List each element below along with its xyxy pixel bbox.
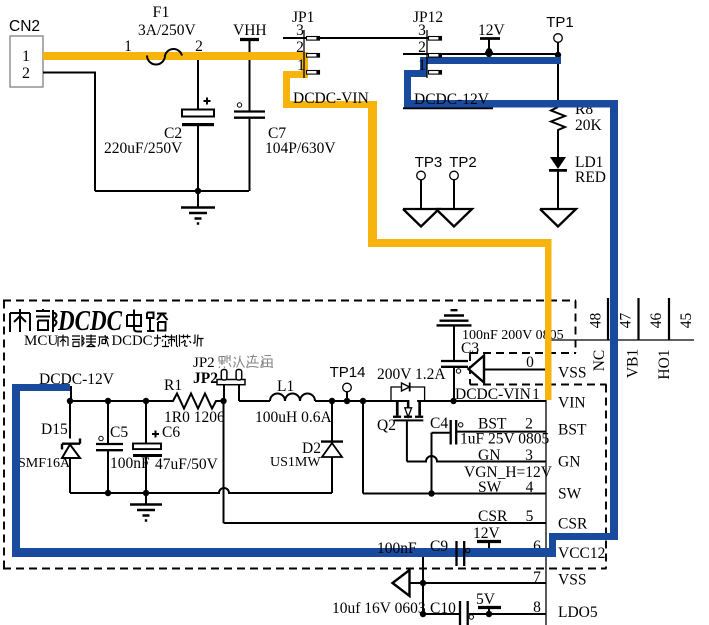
svg-text:47uF/50V: 47uF/50V xyxy=(155,456,219,473)
svg-text:VHH: VHH xyxy=(233,22,267,39)
node junction TP1/wire xyxy=(555,52,561,58)
pin stub JP1-1 xyxy=(307,71,320,75)
wire DCDC-12V highlight vertical under JP12 xyxy=(404,70,411,107)
svg-text:7: 7 xyxy=(533,569,541,586)
svg-text:CN2: CN2 xyxy=(9,18,40,35)
hanzi 芯 (small) xyxy=(181,335,192,347)
svg-text:GN: GN xyxy=(558,454,580,471)
svg-text:1: 1 xyxy=(124,38,132,55)
svg-text:1: 1 xyxy=(532,386,540,403)
resistor R8 xyxy=(551,101,603,157)
svg-text:3: 3 xyxy=(525,447,533,464)
node junction TP14 xyxy=(344,398,350,404)
wire ground rail with hop over CSR wire xyxy=(70,488,332,493)
node junction SW drop xyxy=(360,398,366,404)
ground inverted above C3 xyxy=(437,310,472,360)
node junction D2 top xyxy=(329,398,335,404)
wire SW drop vertical xyxy=(362,401,364,494)
svg-text:TP3: TP3 xyxy=(415,154,443,171)
svg-text:1: 1 xyxy=(297,57,305,74)
svg-text:DCDC-VIN: DCDC-VIN xyxy=(455,386,531,403)
svg-text:C5: C5 xyxy=(110,424,128,441)
svg-text:48: 48 xyxy=(588,313,605,329)
svg-text:DCDC: DCDC xyxy=(112,333,153,349)
svg-text:SW: SW xyxy=(558,486,582,503)
hanzi 默 (small gray) xyxy=(219,355,231,368)
wire SW node horizontal xyxy=(315,400,409,402)
wire DCDC-12V highlight step to VCC12 xyxy=(549,533,618,540)
wire pin0 VSS xyxy=(484,369,546,371)
svg-text:US1MW: US1MW xyxy=(270,455,321,470)
svg-text:TP14: TP14 xyxy=(330,364,366,381)
power symbol 12V bottom xyxy=(473,525,501,553)
svg-text:200V 1.2A: 200V 1.2A xyxy=(377,366,446,383)
wire DCDC-12V entry stub xyxy=(70,386,72,401)
IC top pin stubs 48 47 46 45 xyxy=(608,298,669,340)
svg-text:220uF/250V: 220uF/250V xyxy=(104,140,183,157)
diode D2 xyxy=(270,401,343,493)
svg-text:VSS: VSS xyxy=(558,365,586,382)
node junction C4/SW xyxy=(428,490,434,496)
svg-text:2: 2 xyxy=(418,39,426,56)
svg-text:12V: 12V xyxy=(478,22,506,39)
svg-text:4: 4 xyxy=(526,479,534,496)
wire JP1 pin3 to JP12 pin3 xyxy=(283,37,441,39)
transistor Q2 MOSFET xyxy=(377,366,446,434)
capacitor C5 xyxy=(96,401,150,493)
svg-text:CSR: CSR xyxy=(558,516,588,533)
IC left pin labels xyxy=(558,365,605,622)
wire DCDC-12V highlight bottom run xyxy=(12,548,552,557)
fuse F1 labels xyxy=(138,4,197,39)
diode D15 TVS xyxy=(18,401,80,493)
svg-text:VSS: VSS xyxy=(558,572,586,589)
node junction C6 bottom xyxy=(143,490,149,496)
ground under C2 xyxy=(181,191,215,224)
svg-text:VCC12: VCC12 xyxy=(558,545,605,562)
pin stub JP12-3 xyxy=(429,37,442,41)
svg-text:1uF 25V 0805: 1uF 25V 0805 xyxy=(460,430,550,447)
wire DCDC-VIN highlight under label xyxy=(283,101,373,108)
node junction D15 xyxy=(67,398,73,404)
wire DCDC-VIN highlight JP1 pin1 jog xyxy=(283,71,308,78)
svg-text:JP2: JP2 xyxy=(193,370,218,387)
wire pin7 VSS xyxy=(410,582,546,584)
ground triangle under LD1 xyxy=(540,209,576,227)
hanzi 认 (small gray) xyxy=(234,356,245,368)
svg-text:5V: 5V xyxy=(476,591,496,608)
svg-text:1: 1 xyxy=(418,57,426,74)
wire DCDC-VIN highlight mid vertical xyxy=(368,101,377,247)
wire DCDC-12V highlight JP12 drop xyxy=(420,57,427,77)
wire CSR sense vertical xyxy=(223,401,225,523)
wire DCDC-12V highlight entry to rail xyxy=(12,384,70,391)
ground under C6 xyxy=(130,493,162,521)
capacitor C7 xyxy=(234,103,336,191)
port arrow VSS bottom xyxy=(393,570,410,596)
svg-text:100nF: 100nF xyxy=(377,540,417,557)
dashed box internal DCDC outline xyxy=(3,301,607,569)
capacitor C2 xyxy=(104,58,214,191)
svg-text:NC: NC xyxy=(591,350,608,372)
node junction C5 bottom xyxy=(105,490,111,496)
hanzi 控 (small) xyxy=(154,335,169,347)
svg-text:47: 47 xyxy=(618,313,635,329)
test point TP14 xyxy=(330,364,366,401)
port arrow VSS net xyxy=(469,356,485,383)
svg-text:0: 0 xyxy=(526,354,534,371)
wire DCDC-12V highlight left vertical xyxy=(12,384,20,557)
wire DCDC-12V net stub under JP12 xyxy=(403,107,493,109)
svg-text:100uH 0.6A: 100uH 0.6A xyxy=(255,409,332,426)
capacitor C10 xyxy=(423,600,546,625)
node junction C5 top xyxy=(105,398,111,404)
svg-text:8: 8 xyxy=(533,599,541,616)
wire VIN rail right of Q2 xyxy=(417,400,546,402)
svg-text:SW: SW xyxy=(478,479,502,496)
svg-text:C10: C10 xyxy=(430,600,456,617)
node junction pin7 xyxy=(420,580,426,586)
IC chip body outline xyxy=(546,340,694,625)
wire DCDC-VIN highlight vertical under JP1 xyxy=(283,71,290,108)
power symbol 5V xyxy=(476,591,501,614)
svg-text:BST: BST xyxy=(558,422,587,439)
capacitor C9 plates over highlight xyxy=(377,538,470,566)
hanzi 制 (small) xyxy=(169,335,180,347)
svg-text:VB1: VB1 xyxy=(625,349,642,378)
svg-text:C6: C6 xyxy=(162,424,180,441)
svg-text:46: 46 xyxy=(648,313,665,329)
svg-text:R1: R1 xyxy=(164,377,182,394)
hanzi 内 (small) xyxy=(58,335,68,347)
svg-text:RED: RED xyxy=(575,169,606,186)
svg-text:GN: GN xyxy=(478,447,500,464)
svg-text:F1: F1 xyxy=(153,4,170,21)
capacitor C6 polarized xyxy=(133,401,219,493)
test point TP3 xyxy=(415,154,443,209)
test point TP2 xyxy=(449,154,477,209)
svg-text:104P/630V: 104P/630V xyxy=(265,140,336,157)
wire DCDC-VIN highlight JP1 pin2 drop xyxy=(301,52,308,78)
wire JP12 pin2 to TP1 xyxy=(403,53,558,55)
capacitor C4 xyxy=(430,415,463,494)
node junction JP2/R1/CSR xyxy=(220,398,226,404)
svg-text:C9: C9 xyxy=(430,538,448,555)
svg-text:20K: 20K xyxy=(575,117,603,134)
wire +12V rail xyxy=(70,400,169,402)
hanzi 路 xyxy=(147,313,168,332)
title 内部DCDC电路 (CJK drawn as strokes) xyxy=(10,309,168,332)
ground triangle under TP3 xyxy=(403,209,439,227)
wire DCDC-VIN highlight horizontal to IC xyxy=(368,239,551,247)
wire JP2 right post to L1 xyxy=(239,400,270,402)
svg-text:12V: 12V xyxy=(473,525,501,542)
wire DCDC-12V highlight JP12 pin2 to TP1 xyxy=(423,57,561,64)
svg-text:DCDC-VIN: DCDC-VIN xyxy=(293,90,369,107)
wire pin2 BST xyxy=(457,431,546,433)
hanzi 内 xyxy=(10,309,30,332)
connector JP12 xyxy=(413,9,443,78)
node junction C6 top xyxy=(143,398,149,404)
pin stub JP1-3 xyxy=(307,37,320,41)
wire Q2 gate drop xyxy=(406,421,408,461)
svg-text:3A/250V: 3A/250V xyxy=(138,22,197,39)
pin stub JP1-2 xyxy=(307,54,320,58)
wire pin3 GN with hop over C4 wire xyxy=(407,456,546,461)
wire ground bus under C2/C7 xyxy=(95,190,249,192)
svg-text:10uf 16V 0603: 10uf 16V 0603 xyxy=(332,600,426,617)
svg-text:C4: C4 xyxy=(430,415,448,432)
svg-text:VIN: VIN xyxy=(558,395,586,412)
ground triangle under TP2 xyxy=(436,209,472,227)
wire SW pin4 horizontal xyxy=(363,493,546,495)
svg-text:2: 2 xyxy=(22,65,30,82)
wire DCDC-VIN highlight drop to VIN pin xyxy=(545,239,552,400)
svg-text:JP2: JP2 xyxy=(193,355,215,371)
svg-text:Q2: Q2 xyxy=(377,417,396,434)
svg-text:2: 2 xyxy=(296,39,304,56)
svg-text:2: 2 xyxy=(195,38,203,55)
hanzi 集 (small) xyxy=(86,335,96,347)
hanzi 电 xyxy=(127,310,142,332)
wire DCDC-VIN highlight CN2 to JP1 xyxy=(43,52,308,60)
node junction 5V xyxy=(486,611,492,617)
wire DCDC-12V highlight right-side vertical xyxy=(610,100,618,538)
LED LD1 xyxy=(549,154,606,209)
svg-text:C3: C3 xyxy=(461,340,479,357)
power symbol VHH xyxy=(233,22,267,111)
svg-text:1R0 1206: 1R0 1206 xyxy=(164,409,225,426)
connector JP1 xyxy=(292,9,320,78)
wire DCDC-12V highlight horizontal under label xyxy=(404,100,618,108)
node junction C10 left xyxy=(420,611,426,617)
hanzi 选 (small gray) xyxy=(247,355,260,368)
wire CN2 pin2 down to ground bus xyxy=(43,73,95,192)
svg-text:CSR: CSR xyxy=(478,508,508,525)
svg-text:MCU: MCU xyxy=(24,333,58,349)
capacitor C3 xyxy=(441,328,564,401)
hanzi 通 (small gray) xyxy=(261,356,274,368)
wire pin6 VCC12 xyxy=(423,552,546,554)
svg-text:L1: L1 xyxy=(277,378,294,395)
power symbol 12V top xyxy=(478,22,506,55)
node junction 12V/wire xyxy=(486,51,492,57)
resistor R1 xyxy=(164,377,225,426)
svg-text:100nF: 100nF xyxy=(110,455,150,472)
svg-text:TP1: TP1 xyxy=(546,14,574,31)
svg-text:LDO5: LDO5 xyxy=(558,604,598,621)
fuse F1 symbol xyxy=(124,38,203,65)
hanzi 成 (small) xyxy=(98,335,109,347)
svg-text:45: 45 xyxy=(678,313,695,329)
hanzi 片 (small) xyxy=(193,335,204,347)
svg-text:5: 5 xyxy=(526,508,534,525)
inductor L1 xyxy=(255,378,332,426)
svg-text:3: 3 xyxy=(418,22,426,39)
wire bottom-left vertical C10 branch xyxy=(422,553,424,614)
svg-text:D15: D15 xyxy=(41,421,68,438)
wire DCDC-12V highlight JP12 pin1 jog xyxy=(404,70,427,77)
wire DCDC-12V highlight VCC12 drop xyxy=(549,533,556,557)
node junction C2/ground xyxy=(195,188,201,194)
svg-text:HO1: HO1 xyxy=(656,349,673,379)
test point TP1 xyxy=(546,14,574,107)
pin stub JP12-2 xyxy=(429,54,442,58)
node junction C3 bottom xyxy=(450,398,456,404)
connector CN2 xyxy=(9,18,43,87)
jumper JP2 xyxy=(217,370,245,402)
pin stub JP12-1 xyxy=(429,71,442,75)
svg-text:3: 3 xyxy=(296,22,304,39)
svg-text:DCDC-12V: DCDC-12V xyxy=(414,91,490,108)
hanzi 部 (small) xyxy=(72,335,84,347)
svg-text:TP2: TP2 xyxy=(449,154,477,171)
svg-text:SMF16A: SMF16A xyxy=(18,456,71,471)
svg-text:1: 1 xyxy=(22,48,30,65)
wire pin5 CSR xyxy=(224,522,547,524)
hanzi 部 xyxy=(36,309,57,332)
